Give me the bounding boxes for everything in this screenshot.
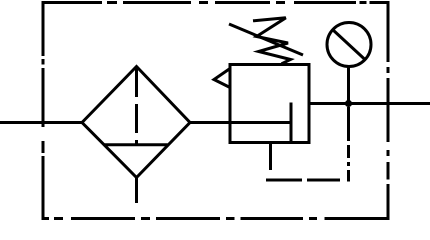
regulator adjustment arrow shaft — [229, 24, 303, 55]
enclosure right border — [387, 1, 390, 220]
regulator internal inlet step vertical — [290, 103, 293, 143]
pilot feedback dashed line: right vertical — [347, 107, 350, 182]
wire: flow line diamond to regulator and inside regulator — [189, 121, 291, 124]
filter drain line — [135, 177, 138, 203]
enclosure bottom border — [42, 217, 390, 220]
wire: inlet flow line (left, y=122.5) — [0, 121, 83, 124]
filter condensate chord — [104, 143, 168, 146]
pressure gauge needle diagonal — [333, 30, 366, 61]
regulator relieving arrowhead — [214, 69, 230, 88]
filter F1 diamond body — [82, 67, 190, 178]
pilot feedback dashed line: bottom horizontal — [266, 179, 340, 182]
regulator spring — [253, 18, 291, 64]
pressure gauge G1 dial — [327, 23, 371, 67]
pilot feedback line: regulator bottom vertical — [269, 143, 272, 171]
enclosure top border — [42, 1, 390, 4]
filter center dashed line — [135, 68, 138, 144]
enclosure left border — [42, 1, 45, 220]
pressure gauge stem — [347, 66, 350, 104]
wire: outlet flow line (right, y=103.5) — [309, 102, 430, 105]
junction node dot — [345, 100, 352, 107]
regulator R1 body — [230, 65, 309, 143]
